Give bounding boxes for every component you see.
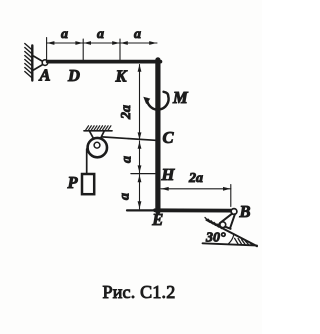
svg-text:Рис. С1.2: Рис. С1.2	[103, 282, 176, 302]
30 degree arc	[228, 234, 234, 244]
vertical dimension line (2a, a, a)	[139, 65, 141, 210]
svg-text:a: a	[118, 193, 133, 200]
pulley axle	[94, 142, 100, 148]
svg-text:30°: 30°	[205, 231, 226, 246]
pin B circle	[231, 209, 237, 215]
svg-text:a: a	[97, 27, 104, 42]
vertical dim arrowheads	[138, 64, 142, 209]
ceiling mount (hatched)	[84, 126, 112, 131]
ground base line	[203, 243, 258, 245]
weight P (rectangle)	[82, 174, 94, 194]
2a horizontal dimension (H-B)	[161, 185, 231, 207]
pulley	[88, 138, 107, 157]
rope down to weight	[86, 149, 88, 175]
pulley bracket triangle	[90, 132, 104, 145]
beam E-B (bottom horizontal)	[155, 208, 232, 212]
top dim arrowheads	[47, 41, 157, 45]
svg-text:E: E	[151, 210, 163, 229]
roller bracket at B	[219, 214, 235, 229]
wedge hatching	[235, 238, 252, 244]
svg-text:P: P	[67, 173, 79, 192]
svg-text:2a: 2a	[188, 171, 203, 186]
svg-text:C: C	[163, 128, 175, 147]
svg-text:B: B	[239, 202, 251, 221]
svg-text:M: M	[172, 88, 189, 107]
svg-text:a: a	[120, 156, 135, 163]
tick at H	[131, 173, 155, 175]
moment M arc	[143, 92, 168, 110]
svg-text:D: D	[67, 66, 80, 85]
vertical beam corner-E	[155, 60, 160, 212]
svg-text:A: A	[39, 66, 51, 85]
top dimension line	[47, 38, 157, 60]
svg-text:H: H	[161, 165, 176, 184]
beam A-corner (horizontal)	[48, 60, 161, 64]
inclined surface	[207, 220, 258, 246]
incline hatching near B	[205, 218, 222, 229]
pin support A	[34, 56, 48, 70]
svg-text:2a: 2a	[119, 105, 134, 120]
roller wheel	[220, 222, 226, 228]
svg-text:K: K	[115, 67, 128, 86]
svg-text:a: a	[134, 27, 141, 42]
wall at A (hatched)	[25, 44, 33, 81]
svg-text:a: a	[61, 27, 68, 42]
witness line left of E	[127, 209, 155, 211]
rope C to pulley	[102, 137, 156, 140]
